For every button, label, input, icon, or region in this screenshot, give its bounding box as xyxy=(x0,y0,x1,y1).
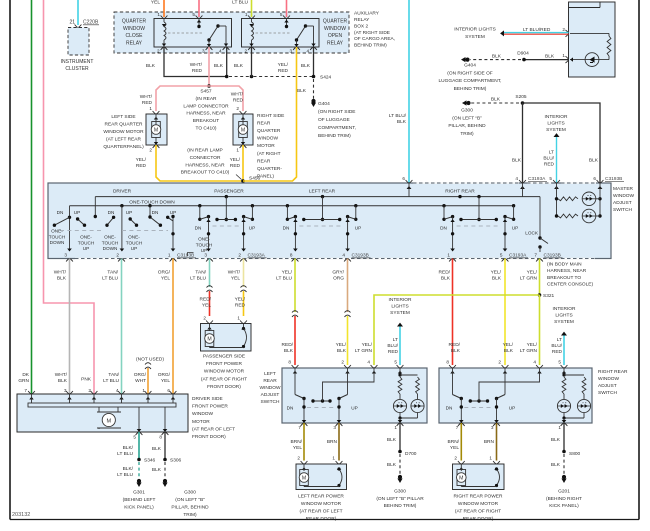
svg-text:HARNESS, NEAR: HARNESS, NEAR xyxy=(185,162,225,168)
svg-text:BLK/: BLK/ xyxy=(123,445,134,451)
svg-text:4: 4 xyxy=(533,360,536,365)
svg-text:1: 1 xyxy=(236,148,239,153)
wire YEL/LT BLU master pin8 down xyxy=(294,259,296,313)
svg-text:WINDOW MOTOR: WINDOW MOTOR xyxy=(103,129,144,135)
svg-text:DRIVER SIDE: DRIVER SIDE xyxy=(192,396,223,402)
auxiliary relay box 2 dashed outline xyxy=(114,12,349,53)
svg-text:WHT/: WHT/ xyxy=(140,94,153,100)
svg-text:(IN BODY MAIN: (IN BODY MAIN xyxy=(547,262,582,268)
wire YEL/BLK to left rear switch pin 2 xyxy=(347,316,349,365)
stub and lever right xyxy=(355,206,357,220)
svg-text:DN: DN xyxy=(195,226,202,231)
ground G300 rear left xyxy=(398,475,402,479)
svg-text:BLU/: BLU/ xyxy=(543,156,554,162)
svg-text:WINDOW: WINDOW xyxy=(257,136,279,142)
svg-text:LT BLU: LT BLU xyxy=(103,378,119,384)
svg-text:BLK: BLK xyxy=(512,158,522,164)
svg-text:BLK: BLK xyxy=(387,462,397,468)
svg-text:LT GRN: LT GRN xyxy=(520,276,538,282)
wire BLK open relay pin 2 down xyxy=(251,47,253,77)
svg-text:S346: S346 xyxy=(144,458,156,464)
svg-text:HARNESS, NEAR: HARNESS, NEAR xyxy=(186,111,226,117)
svg-text:BLK: BLK xyxy=(492,276,502,282)
svg-text:LIGHTS: LIGHTS xyxy=(555,313,572,319)
svg-text:REAR: REAR xyxy=(257,120,271,126)
relay switch armature xyxy=(286,19,288,27)
wire BLK D700 to ground dashed xyxy=(399,454,401,474)
svg-text:WINDOW: WINDOW xyxy=(598,376,620,382)
LED left adjust xyxy=(393,399,406,412)
svg-text:QUARTER: QUARTER xyxy=(257,128,281,134)
wire LT BLU/RED lamp to interior lights system xyxy=(504,32,569,34)
ground G300 B pillar xyxy=(466,101,470,105)
svg-text:INSTRUMENT: INSTRUMENT xyxy=(61,59,94,65)
svg-text:WINDOW: WINDOW xyxy=(324,26,346,32)
svg-text:FRONT POWER: FRONT POWER xyxy=(192,404,228,410)
supply bus xyxy=(70,205,514,207)
svg-text:QUARTER: QUARTER xyxy=(323,19,348,25)
wire into open relay pin 5 xyxy=(286,0,288,17)
wire BLK driver motor pin8 to S306 xyxy=(164,432,166,459)
svg-text:LT GRN: LT GRN xyxy=(355,348,373,354)
wire LT BLU/RED to right rear switch pin 5 xyxy=(561,332,567,336)
svg-text:YEL/: YEL/ xyxy=(491,270,502,276)
svg-text:YEL: YEL xyxy=(151,0,160,6)
svg-text:8: 8 xyxy=(288,360,291,365)
svg-text:RELAY: RELAY xyxy=(354,17,370,23)
wire WHT/YEL master pin2b down xyxy=(243,259,245,288)
svg-text:BLK: BLK xyxy=(589,158,599,164)
svg-text:TRIM): TRIM) xyxy=(460,131,474,137)
svg-text:GRY/: GRY/ xyxy=(332,270,344,276)
wire RED/BLK master pin1b to right rear switch pin 8 xyxy=(452,259,454,366)
svg-text:COMPARTMENT,: COMPARTMENT, xyxy=(318,125,356,131)
stub and lever right xyxy=(513,206,515,220)
svg-text:(AT LEFT REAR: (AT LEFT REAR xyxy=(106,137,141,143)
svg-text:YEL: YEL xyxy=(202,303,211,309)
svg-text:ONE-: ONE- xyxy=(51,229,63,234)
svg-text:RED: RED xyxy=(278,68,289,74)
svg-text:WINDOW MOTOR: WINDOW MOTOR xyxy=(204,369,245,375)
wire YEL/RED right quarter motor down xyxy=(242,145,244,181)
svg-text:YEL/: YEL/ xyxy=(235,297,246,303)
wire YEL/BLK master pin5 to right rear switch pin 2 xyxy=(504,259,506,366)
contact bar xyxy=(461,219,496,221)
wire WHT/RED S457 to left quarter motor xyxy=(156,86,209,111)
svg-text:ADJUST: ADJUST xyxy=(613,200,632,206)
svg-text:REAR: REAR xyxy=(263,378,277,384)
svg-text:PASSENGER SIDE: PASSENGER SIDE xyxy=(203,354,245,360)
svg-text:RIGHT SIDE: RIGHT SIDE xyxy=(257,113,284,119)
svg-text:BLK: BLK xyxy=(58,378,68,384)
svg-text:MOTOR: MOTOR xyxy=(192,419,210,425)
wire GRY/ORG master pin4 down xyxy=(347,259,349,313)
svg-text:(AT RIGHT SIDE: (AT RIGHT SIDE xyxy=(354,30,390,36)
svg-text:203132: 203132 xyxy=(12,512,30,518)
svg-text:7: 7 xyxy=(24,388,27,393)
svg-text:RED: RED xyxy=(388,349,399,355)
svg-text:REAR DOOR): REAR DOOR) xyxy=(306,516,337,522)
svg-text:2: 2 xyxy=(238,253,241,258)
svg-text:WINDOW MOTOR: WINDOW MOTOR xyxy=(458,501,499,507)
svg-text:LT BLU: LT BLU xyxy=(117,451,133,457)
svg-text:ADJUST: ADJUST xyxy=(261,392,280,398)
wire YEL/RED S456 to open relay pin 3 xyxy=(243,47,297,181)
svg-text:BLK: BLK xyxy=(152,446,162,452)
svg-text:TOUCH: TOUCH xyxy=(126,240,143,245)
svg-text:BREAKOUT TO C410): BREAKOUT TO C410) xyxy=(181,170,230,176)
svg-text:7: 7 xyxy=(534,253,537,258)
master illumination circuit xyxy=(556,183,558,216)
svg-text:(BEHIND RIGHT: (BEHIND RIGHT xyxy=(546,496,582,502)
svg-text:1: 1 xyxy=(562,53,565,58)
svg-text:8: 8 xyxy=(290,253,293,258)
page frame left border xyxy=(9,0,11,520)
svg-text:ONE-: ONE- xyxy=(104,235,116,240)
svg-text:DN: DN xyxy=(287,406,294,411)
relay switch armature xyxy=(198,19,200,27)
svg-text:YEL: YEL xyxy=(450,445,459,451)
svg-text:SWITCH: SWITCH xyxy=(613,207,632,213)
driver lever UP 2 xyxy=(130,219,136,225)
svg-text:BLK: BLK xyxy=(337,348,347,354)
svg-text:2: 2 xyxy=(149,148,152,153)
splice S306 xyxy=(163,458,167,462)
lamp internal circuit xyxy=(570,32,609,34)
svg-text:CENTER CONSOLE): CENTER CONSOLE) xyxy=(547,281,594,287)
svg-text:WINDOW: WINDOW xyxy=(123,26,145,32)
wire BLK/LT BLU S346 to G301 dashed xyxy=(138,462,140,478)
svg-text:BLK: BLK xyxy=(152,467,162,473)
svg-text:UP: UP xyxy=(126,210,133,215)
svg-text:OF CARGO AREA,: OF CARGO AREA, xyxy=(354,36,395,42)
svg-text:(AT REAR OF RIGHT: (AT REAR OF RIGHT xyxy=(201,376,247,382)
svg-text:G300: G300 xyxy=(184,490,196,496)
svg-text:LT BLU/: LT BLU/ xyxy=(389,113,407,119)
wire BLK left rear switch to D700 xyxy=(399,423,401,450)
svg-text:ORG/: ORG/ xyxy=(134,372,147,378)
wire BLK S205 to master pin 4 xyxy=(522,103,524,183)
svg-text:LT BLU: LT BLU xyxy=(276,276,292,282)
svg-text:MOTOR: MOTOR xyxy=(257,143,275,149)
svg-text:UP: UP xyxy=(83,246,90,251)
splice S346 xyxy=(137,458,141,462)
svg-text:G404: G404 xyxy=(464,63,476,69)
svg-text:RIGHT REAR: RIGHT REAR xyxy=(598,369,628,375)
svg-text:(AT REAR OF RIGHT: (AT REAR OF RIGHT xyxy=(455,508,501,514)
wire TAN/LT BLU master pin3b down xyxy=(209,259,211,288)
driver lever UP 1 xyxy=(78,219,85,225)
svg-text:2: 2 xyxy=(454,456,457,461)
passenger motor armature xyxy=(205,331,214,347)
adjust switch mech link dashed xyxy=(307,407,336,409)
ground G404 luggage compartment xyxy=(465,58,469,62)
svg-text:DN: DN xyxy=(152,210,159,215)
svg-text:4: 4 xyxy=(219,49,222,54)
svg-text:DN: DN xyxy=(57,210,64,215)
svg-text:GRN: GRN xyxy=(18,378,29,384)
svg-text:BLK: BLK xyxy=(57,276,67,282)
svg-text:RED: RED xyxy=(544,162,555,168)
LED D2 master xyxy=(582,209,596,223)
svg-text:BRN/: BRN/ xyxy=(448,439,460,445)
mech link dashed xyxy=(457,225,501,227)
svg-text:BLU/: BLU/ xyxy=(387,343,398,349)
svg-text:YEL/: YEL/ xyxy=(136,157,147,163)
svg-text:UP: UP xyxy=(509,406,516,411)
svg-text:BLK: BLK xyxy=(551,437,561,443)
svg-text:BOX 2: BOX 2 xyxy=(354,23,368,29)
svg-text:S205: S205 xyxy=(515,94,527,100)
wire BRN/YEL left rear switch to motor xyxy=(303,423,305,461)
svg-text:RED: RED xyxy=(192,68,203,74)
relay mechanical link xyxy=(256,32,292,34)
svg-text:PILLAR, BEHIND: PILLAR, BEHIND xyxy=(448,123,486,129)
driver mech links dashed xyxy=(60,230,103,232)
bus junction nodes xyxy=(225,195,228,198)
svg-text:REAR DOOR): REAR DOOR) xyxy=(463,516,494,522)
svg-text:D700: D700 xyxy=(405,451,417,457)
svg-text:8: 8 xyxy=(159,435,162,440)
svg-text:LAMP CONNECTOR: LAMP CONNECTOR xyxy=(183,103,229,109)
svg-text:YEL/: YEL/ xyxy=(362,342,373,348)
svg-text:DN: DN xyxy=(446,406,453,411)
left rear window adjust switch box xyxy=(282,368,427,423)
svg-text:RED: RED xyxy=(552,349,563,355)
svg-text:4: 4 xyxy=(515,176,518,181)
wire BLK S306 to G300 dashed xyxy=(164,462,166,478)
adjust switch bottom pins xyxy=(301,423,308,426)
passenger motor loop xyxy=(243,324,245,329)
svg-text:8: 8 xyxy=(446,360,449,365)
svg-text:M: M xyxy=(459,476,463,482)
svg-text:LIGHTS: LIGHTS xyxy=(547,121,564,127)
svg-text:BLK: BLK xyxy=(551,462,561,468)
svg-text:UP: UP xyxy=(249,226,256,231)
svg-text:2: 2 xyxy=(341,360,344,365)
svg-text:5: 5 xyxy=(549,176,552,181)
svg-text:FRONT DOOR): FRONT DOOR) xyxy=(192,434,226,440)
driver motor armature xyxy=(98,407,100,412)
wire YEL/LT GRN S321 to right rear switch pin 4 xyxy=(539,295,541,365)
in-line connector D700 xyxy=(398,450,402,454)
svg-text:G300: G300 xyxy=(461,108,473,114)
svg-text:1: 1 xyxy=(394,425,397,430)
svg-text:BLK: BLK xyxy=(545,54,555,60)
LED left adjust xyxy=(557,399,570,412)
svg-text:BLK: BLK xyxy=(284,348,294,354)
wire BRN right rear switch to motor xyxy=(496,423,498,461)
svg-text:LEFT REAR POWER: LEFT REAR POWER xyxy=(298,494,344,500)
contact bar xyxy=(304,219,340,221)
svg-text:INTERIOR: INTERIOR xyxy=(545,114,568,120)
adjust switch DN contact xyxy=(294,368,296,395)
svg-text:7: 7 xyxy=(456,425,459,430)
svg-text:BLK: BLK xyxy=(441,276,451,282)
svg-text:(ON LEFT “B” PILLAR: (ON LEFT “B” PILLAR xyxy=(376,496,424,502)
svg-text:S321: S321 xyxy=(543,293,555,299)
svg-text:3: 3 xyxy=(333,425,336,430)
splice S457 xyxy=(207,84,211,88)
svg-text:TOUCH: TOUCH xyxy=(49,234,66,239)
wire TAN/LT BLU master pin2 to driver motor pin 4 xyxy=(121,259,123,395)
wire ORG/YEL master pin1 to driver motor pin 6 xyxy=(172,259,174,395)
svg-text:S424: S424 xyxy=(320,75,332,81)
lock switch xyxy=(539,197,541,238)
svg-text:5: 5 xyxy=(280,12,283,17)
ground G404 rear xyxy=(311,99,315,103)
svg-text:LEFT REAR: LEFT REAR xyxy=(309,188,336,194)
svg-text:RED/: RED/ xyxy=(439,270,451,276)
svg-text:TOUCH: TOUCH xyxy=(102,240,119,245)
wire YEL into close relay pin 1 xyxy=(163,0,165,17)
svg-text:3: 3 xyxy=(290,49,293,54)
svg-text:4: 4 xyxy=(367,360,370,365)
wire RED/BLK to left rear switch pin 8 xyxy=(294,316,296,365)
in-line connector on passenger down wire xyxy=(207,286,213,292)
svg-text:CLUSTER: CLUSTER xyxy=(65,66,89,72)
switch cluster feed xyxy=(322,197,324,220)
svg-text:RED: RED xyxy=(233,98,244,104)
svg-text:DK: DK xyxy=(22,372,29,378)
mech link dashed xyxy=(213,225,240,227)
master window adjust switch box xyxy=(48,183,611,259)
svg-text:BLK: BLK xyxy=(451,348,461,354)
driver lever DN 3 xyxy=(149,206,151,217)
wire YEL/RED to passenger motor pin 1 xyxy=(243,291,245,316)
driver lever UP 3 xyxy=(168,217,173,221)
switch cluster feed xyxy=(225,197,227,220)
quarter window relay box xyxy=(154,19,232,48)
svg-text:WINDOW: WINDOW xyxy=(192,411,214,417)
wire LT BLU/RED interior lights to master pin 5 xyxy=(554,133,560,137)
svg-text:RED/: RED/ xyxy=(282,342,294,348)
driver lever DN 2 xyxy=(107,217,114,225)
svg-text:WHT: WHT xyxy=(135,378,146,384)
wire BLK close relay pin 2 down xyxy=(164,47,227,77)
svg-text:5: 5 xyxy=(133,435,136,440)
svg-text:INTERIOR: INTERIOR xyxy=(389,297,412,303)
svg-text:YEL: YEL xyxy=(161,276,170,282)
svg-text:4: 4 xyxy=(342,253,345,258)
svg-text:G301: G301 xyxy=(133,490,145,496)
stub and lever right xyxy=(251,206,253,220)
svg-text:2: 2 xyxy=(498,360,501,365)
driver motor outputs xyxy=(138,407,140,432)
svg-text:BRN: BRN xyxy=(484,439,495,445)
wire WHT/RED S457 to right quarter motor xyxy=(209,86,243,111)
svg-text:WINDOW: WINDOW xyxy=(259,385,281,391)
wire BRN left rear switch to motor xyxy=(338,423,340,461)
svg-text:4: 4 xyxy=(116,388,119,393)
page frame bottom border xyxy=(10,519,639,521)
svg-text:(ON LEFT “B”: (ON LEFT “B” xyxy=(452,115,482,121)
svg-text:UP: UP xyxy=(170,210,177,215)
svg-text:BLK: BLK xyxy=(397,119,407,125)
stub and lever left xyxy=(443,206,445,220)
svg-text:BEHIND TRIM): BEHIND TRIM) xyxy=(318,133,351,139)
svg-text:SWITCH: SWITCH xyxy=(598,390,617,396)
svg-text:SYSTEM: SYSTEM xyxy=(554,319,574,325)
svg-text:2: 2 xyxy=(297,456,300,461)
svg-text:5: 5 xyxy=(558,360,561,365)
wire BLK lamp pin1 to D904 xyxy=(524,59,569,61)
LED D1 master xyxy=(582,192,596,206)
svg-text:INTERIOR LIGHTS: INTERIOR LIGHTS xyxy=(454,27,496,33)
svg-text:WINDOW: WINDOW xyxy=(613,193,635,199)
svg-text:PILLAR, BEHIND: PILLAR, BEHIND xyxy=(171,504,209,510)
svg-text:RED: RED xyxy=(235,303,246,309)
svg-text:WHT/: WHT/ xyxy=(55,372,68,378)
svg-text:S457: S457 xyxy=(200,89,212,95)
wire BLK D904 to ground G404 dashed xyxy=(470,59,521,61)
svg-text:BLK: BLK xyxy=(297,88,307,94)
svg-text:QUARTERPANEL): QUARTERPANEL) xyxy=(103,144,144,150)
svg-text:DN: DN xyxy=(440,226,447,231)
svg-text:1: 1 xyxy=(489,456,492,461)
svg-text:ORG/: ORG/ xyxy=(158,372,171,378)
svg-text:2: 2 xyxy=(157,49,160,54)
svg-text:BLK: BLK xyxy=(504,348,514,354)
wire YEL/RED left quarter motor to S456 xyxy=(156,145,243,181)
svg-text:LUGGAGE COMPARTMENT,: LUGGAGE COMPARTMENT, xyxy=(439,78,502,84)
svg-text:(IN REAR: (IN REAR xyxy=(195,96,217,102)
svg-text:3: 3 xyxy=(64,388,67,393)
svg-text:S800: S800 xyxy=(569,451,581,457)
one-touch down bus xyxy=(95,196,540,198)
svg-text:SYSTEM: SYSTEM xyxy=(546,127,566,133)
svg-text:2: 2 xyxy=(245,49,248,54)
cargo lamp assembly box xyxy=(569,2,616,77)
svg-text:2: 2 xyxy=(203,316,206,321)
svg-text:YEL/: YEL/ xyxy=(278,62,289,68)
splice S321 xyxy=(538,293,542,297)
hidden BLK bus dashed 2 xyxy=(254,76,313,78)
svg-text:(ON RIGHT SIDE: (ON RIGHT SIDE xyxy=(318,109,356,115)
svg-text:DN: DN xyxy=(283,226,290,231)
svg-text:YEL: YEL xyxy=(161,378,170,384)
driver lever DN 1 xyxy=(54,217,69,225)
wire DK GRN left column xyxy=(31,0,33,394)
driver motor internal bus bar xyxy=(28,403,176,407)
svg-text:(ON RIGHT SIDE OF: (ON RIGHT SIDE OF xyxy=(447,70,493,76)
wire LT BLU to instrument cluster xyxy=(77,0,79,25)
wire BLK S205 to ground G300 dashed xyxy=(471,102,519,104)
svg-text:BLU/: BLU/ xyxy=(551,343,562,349)
wire BLK close relay pin 4 down xyxy=(226,47,228,77)
switch cluster feed xyxy=(478,197,480,220)
svg-text:TAN/: TAN/ xyxy=(108,372,119,378)
svg-text:DRIVER: DRIVER xyxy=(113,188,132,194)
svg-text:QUARTER-: QUARTER- xyxy=(257,166,282,172)
svg-text:LT: LT xyxy=(557,337,562,343)
svg-text:KICK PANEL): KICK PANEL) xyxy=(549,503,579,509)
svg-text:LT GRN: LT GRN xyxy=(520,348,538,354)
svg-text:1: 1 xyxy=(157,12,160,17)
svg-text:BREAKOUT TO: BREAKOUT TO xyxy=(547,275,581,281)
wire WHT/RED into close relay pin 5 xyxy=(198,0,200,17)
wire WHT/BLK master pin3 to driver motor pin 3 xyxy=(69,259,71,395)
svg-text:YEL/: YEL/ xyxy=(282,270,293,276)
quarter window relay box xyxy=(242,19,320,48)
svg-text:(AT RIGHT: (AT RIGHT xyxy=(257,151,281,157)
svg-text:M: M xyxy=(154,128,158,134)
wire LT BLU/BLK from top to master switch pin 6 xyxy=(408,0,410,183)
svg-text:(NOT USED): (NOT USED) xyxy=(136,357,164,363)
mech link dashed xyxy=(299,225,343,227)
svg-text:G201: G201 xyxy=(558,489,570,495)
svg-text:DOWN: DOWN xyxy=(50,240,65,245)
